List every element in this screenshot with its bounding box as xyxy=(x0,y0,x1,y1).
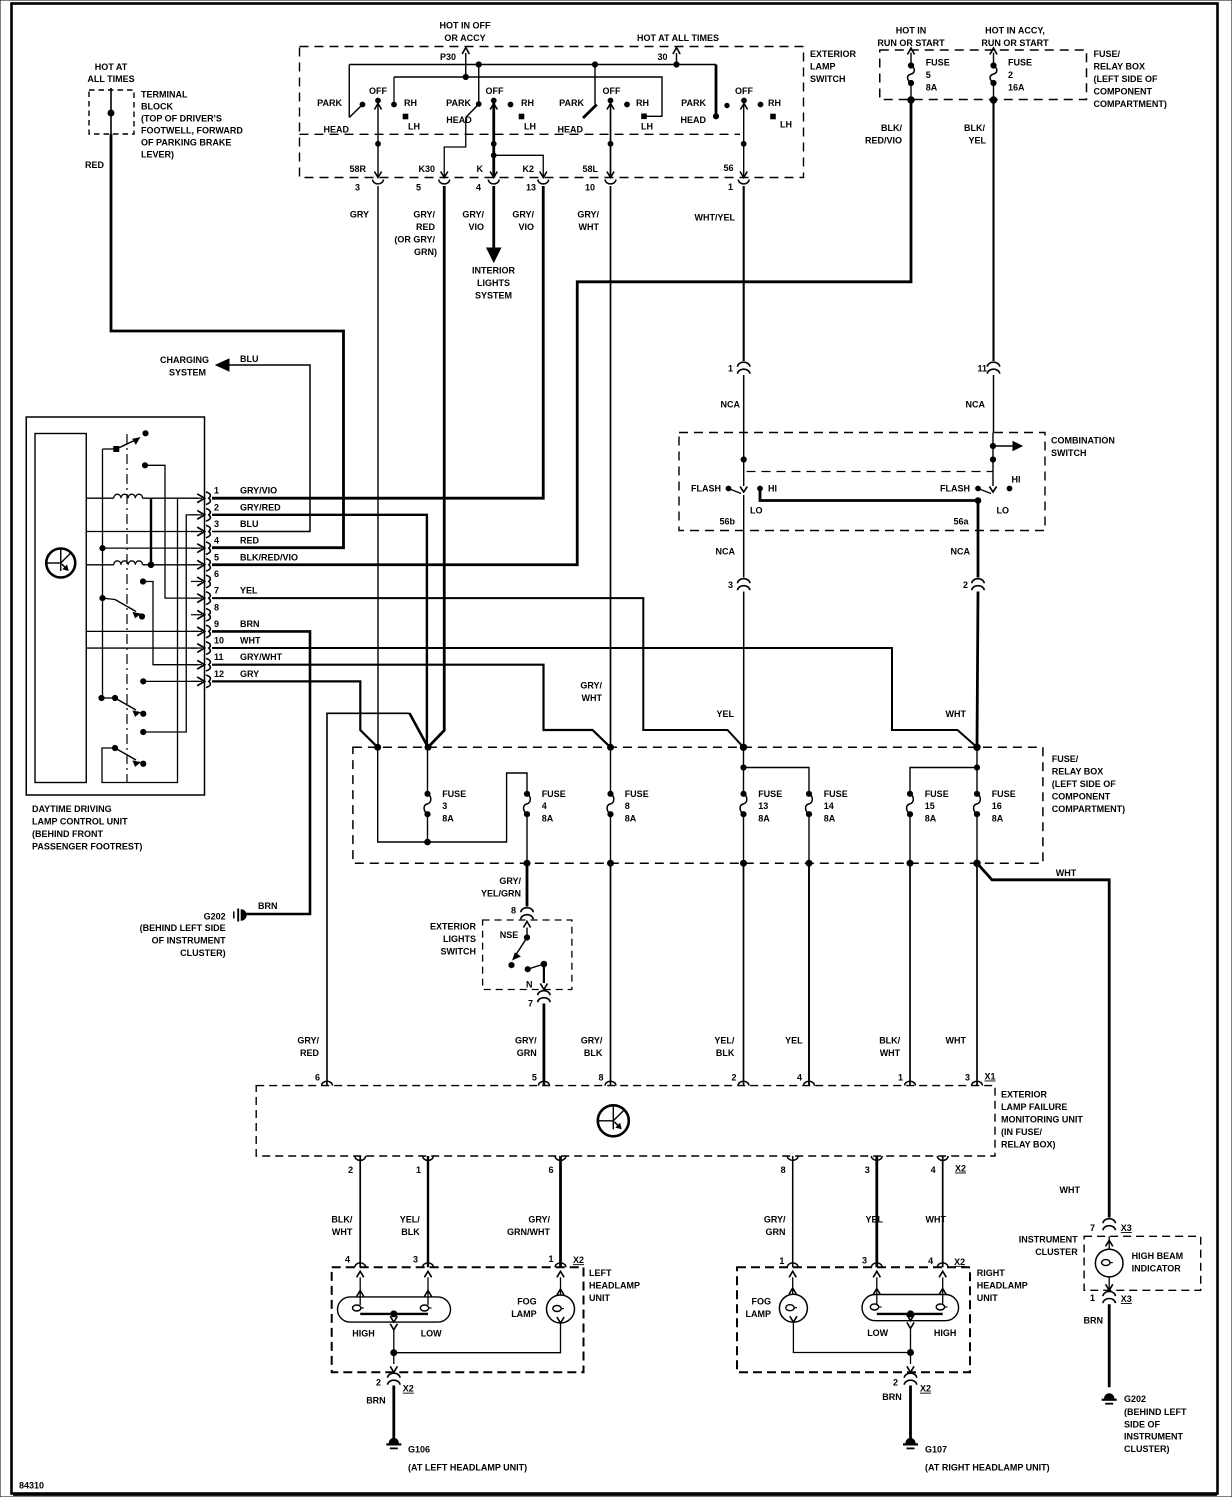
svg-text:FUSE: FUSE xyxy=(1008,58,1032,68)
wire GRY/RED from K30 to fuse box xyxy=(428,186,444,747)
control unit switch4 feed from row1 xyxy=(102,498,178,782)
svg-text:GRY/: GRY/ xyxy=(581,1036,603,1046)
svg-text:X3: X3 xyxy=(1121,1294,1132,1304)
switch section1 arm xyxy=(349,102,365,117)
node GRY into fuse box xyxy=(375,744,381,750)
svg-text:BLK: BLK xyxy=(716,1048,735,1058)
supply bus line B xyxy=(394,77,662,116)
svg-text:BLK/: BLK/ xyxy=(879,1036,900,1046)
svg-text:BRN: BRN xyxy=(1084,1316,1104,1326)
svg-text:P30: P30 xyxy=(440,52,456,62)
wire BRN to G202 xyxy=(1108,1304,1111,1387)
svg-text:OR ACCY: OR ACCY xyxy=(444,33,485,43)
switch section1 PARK/HEAD labels xyxy=(317,98,349,135)
svg-text:NCA: NCA xyxy=(951,547,971,557)
label FUSE 16 8A xyxy=(992,789,1016,824)
svg-text:SYSTEM: SYSTEM xyxy=(475,291,512,301)
svg-text:GRN: GRN xyxy=(517,1048,537,1058)
svg-text:G107: G107 xyxy=(925,1444,947,1454)
svg-text:GRN): GRN) xyxy=(414,247,437,257)
connector 8 xyxy=(511,906,533,920)
switch section2 RH/LH contacts xyxy=(508,98,536,132)
label FUSE 15 8A xyxy=(925,789,949,824)
connector 7 X3 xyxy=(1090,1219,1115,1233)
svg-text:FLASH: FLASH xyxy=(691,484,721,494)
label BRN (pin9) xyxy=(258,901,278,911)
label NCA left xyxy=(721,400,741,410)
combination switch inner dashed line xyxy=(747,471,994,473)
svg-text:BLK/RED/VIO: BLK/RED/VIO xyxy=(240,552,298,562)
svg-text:3: 3 xyxy=(862,1255,867,1265)
fuse F15 xyxy=(907,791,914,866)
label GRY/BLK xyxy=(581,1036,603,1059)
wire into combination switch right xyxy=(993,375,995,433)
svg-text:LAMP: LAMP xyxy=(746,1309,772,1319)
wire WHT to instrument cluster xyxy=(977,863,1109,1217)
label GRY/YEL/GRN xyxy=(481,876,522,899)
svg-text:MONITORING UNIT: MONITORING UNIT xyxy=(1001,1115,1083,1125)
comb switch right arrow out xyxy=(993,442,1022,451)
control unit switch3 xyxy=(99,695,146,716)
svg-text:BLU: BLU xyxy=(240,519,259,529)
left headlamp bottom connector xyxy=(376,1373,400,1387)
svg-text:PARK: PARK xyxy=(681,98,706,108)
left bulb output arrows xyxy=(390,1316,397,1330)
svg-text:TERMINAL: TERMINAL xyxy=(141,90,188,100)
control unit row10 wire xyxy=(86,647,197,649)
left headlamp pin4 arrow xyxy=(357,1271,364,1305)
right headlamp caption xyxy=(977,1268,1028,1303)
svg-text:8: 8 xyxy=(625,801,630,811)
svg-text:RIGHT: RIGHT xyxy=(977,1268,1006,1278)
svg-text:FOG: FOG xyxy=(517,1297,537,1307)
wire YEL to monitor pin 4 xyxy=(808,863,810,1085)
svg-text:GRN: GRN xyxy=(766,1227,786,1237)
branch wire K2 xyxy=(494,155,547,177)
svg-text:SWITCH: SWITCH xyxy=(441,947,477,957)
svg-text:WHT: WHT xyxy=(880,1048,901,1058)
wire NCA 56b xyxy=(716,531,744,578)
label COMBINATION SWITCH xyxy=(1051,436,1115,459)
svg-text:8A: 8A xyxy=(542,813,554,823)
svg-text:8A: 8A xyxy=(625,813,637,823)
svg-text:13: 13 xyxy=(758,801,768,811)
control unit coil2 xyxy=(86,561,197,565)
wire GRY (58R) to fuse box xyxy=(377,186,379,747)
svg-text:LOW: LOW xyxy=(421,1329,442,1339)
svg-text:YEL: YEL xyxy=(785,1036,803,1046)
svg-text:GRY/: GRY/ xyxy=(515,1036,537,1046)
svg-text:WHT: WHT xyxy=(579,222,600,232)
comb switch right HI contact xyxy=(1007,475,1020,491)
label INSTRUMENT CLUSTER xyxy=(1019,1235,1079,1258)
svg-text:CLUSTER): CLUSTER) xyxy=(1124,1444,1170,1454)
connector pin 1 (56) xyxy=(728,180,749,193)
svg-text:RELAY BOX: RELAY BOX xyxy=(1094,62,1146,72)
svg-text:(TOP OF DRIVER'S: (TOP OF DRIVER'S xyxy=(141,114,222,124)
svg-text:YEL: YEL xyxy=(240,586,258,596)
label G106 xyxy=(408,1444,527,1472)
svg-text:16A: 16A xyxy=(1008,83,1025,93)
control unit row9 wire xyxy=(86,630,197,632)
label WHT (monitor) xyxy=(946,1036,967,1046)
svg-text:RELAY BOX): RELAY BOX) xyxy=(1001,1140,1056,1150)
wire 56b to fuse box xyxy=(743,592,745,748)
label FUSE 4 8A xyxy=(542,789,566,824)
comb switch 56b output xyxy=(719,495,743,531)
switch section3 PARK/HEAD labels xyxy=(557,98,584,135)
svg-text:10: 10 xyxy=(214,636,224,646)
left low filament xyxy=(420,1305,431,1311)
connector 3 (56b) xyxy=(728,579,750,591)
supply bus line A xyxy=(349,62,716,67)
switch section3 supply wire xyxy=(594,65,596,105)
svg-text:WHT: WHT xyxy=(946,1036,967,1046)
svg-text:8A: 8A xyxy=(992,813,1004,823)
svg-text:PARK: PARK xyxy=(446,98,471,108)
label X2 (monitor) xyxy=(955,1164,966,1174)
svg-text:14: 14 xyxy=(824,801,834,811)
fuse/relay box (top) xyxy=(880,50,1087,100)
wire NCA 56a xyxy=(951,531,979,578)
label BRN (right) xyxy=(882,1392,902,1402)
control unit caption xyxy=(32,804,142,852)
svg-text:4: 4 xyxy=(214,536,219,546)
svg-text:8: 8 xyxy=(598,1073,603,1083)
label BLK/WHT (left) xyxy=(331,1215,352,1238)
high beam indicator bulb xyxy=(1095,1236,1123,1290)
svg-text:5: 5 xyxy=(532,1073,537,1083)
ground G202 left symbol xyxy=(234,909,246,922)
svg-text:(LEFT SIDE OF: (LEFT SIDE OF xyxy=(1052,779,1117,789)
svg-text:X2: X2 xyxy=(573,1255,584,1265)
svg-text:4: 4 xyxy=(928,1256,933,1266)
svg-text:INDICATOR: INDICATOR xyxy=(1132,1263,1182,1273)
fuse F3 xyxy=(424,747,431,842)
wire GRY/GRN/WHT to left headlamp xyxy=(559,1156,562,1267)
svg-text:RH: RH xyxy=(768,98,781,108)
label X2 (right headlamp bottom) xyxy=(920,1384,931,1394)
svg-text:GRY: GRY xyxy=(240,669,259,679)
svg-text:RED/VIO: RED/VIO xyxy=(865,136,902,146)
wire YEL/BLK to left headlamp xyxy=(427,1156,429,1267)
label 56 xyxy=(723,163,733,173)
label HOT IN ACCY RUN OR START xyxy=(981,26,1049,49)
svg-text:LAMP: LAMP xyxy=(511,1309,537,1319)
svg-text:RED: RED xyxy=(300,1048,320,1058)
wire 56a to fuse box xyxy=(977,592,978,748)
control unit row12 contact xyxy=(141,679,198,684)
label LO right xyxy=(997,506,1010,516)
svg-text:7: 7 xyxy=(1090,1223,1095,1233)
svg-text:(BEHIND FRONT: (BEHIND FRONT xyxy=(32,829,103,839)
svg-text:INSTRUMENT: INSTRUMENT xyxy=(1124,1432,1183,1442)
label WHT (cluster top) xyxy=(1056,868,1077,878)
svg-text:8A: 8A xyxy=(925,813,937,823)
svg-text:HEADLAMP: HEADLAMP xyxy=(589,1281,640,1291)
label LO left xyxy=(750,506,763,516)
fuse 2 arrow xyxy=(990,48,997,66)
right lamp common wire xyxy=(907,1328,914,1372)
label YEL (pin7) xyxy=(716,709,734,719)
svg-text:RED: RED xyxy=(240,536,260,546)
label GRY/GRN xyxy=(515,1036,537,1059)
label YEL (monitor) xyxy=(785,1036,803,1046)
comb switch left FLASH contact xyxy=(691,484,741,494)
label BRN (left) xyxy=(366,1395,386,1405)
control unit coil1 xyxy=(86,494,197,498)
wire GRY/WHT pin11 to fuse box xyxy=(212,665,611,748)
svg-text:6: 6 xyxy=(315,1073,320,1083)
wire BRN to G106 xyxy=(392,1386,395,1442)
connector 11 (BLK/YEL) xyxy=(977,362,999,374)
NSE switch contact xyxy=(500,922,531,941)
svg-text:HEADLAMP: HEADLAMP xyxy=(977,1281,1028,1291)
right headlamp pin4 arrow xyxy=(939,1271,946,1304)
switch section1 output wire 58R xyxy=(374,101,381,178)
fuse/relay box note (top) xyxy=(1094,49,1167,109)
svg-text:WHT/YEL: WHT/YEL xyxy=(695,213,736,223)
left headlamp top pins xyxy=(345,1254,566,1267)
label EXTERIOR LIGHTS SWITCH xyxy=(430,922,477,957)
svg-text:RH: RH xyxy=(636,98,649,108)
switch section3 RH/LH contacts xyxy=(625,98,653,132)
label HOT AT ALL TIMES (terminal block) xyxy=(87,62,134,84)
svg-text:LAMP FAILURE: LAMP FAILURE xyxy=(1001,1102,1067,1112)
svg-text:4: 4 xyxy=(542,801,547,811)
svg-text:YEL/: YEL/ xyxy=(714,1036,735,1046)
svg-text:LH: LH xyxy=(641,122,653,132)
right bulb output arrows xyxy=(907,1315,914,1329)
wire GRY/RED branch to monitor pin 6 xyxy=(327,713,428,1085)
exterior lamp switch inner dashed line xyxy=(300,133,741,135)
svg-text:FOG: FOG xyxy=(752,1297,772,1307)
svg-text:LH: LH xyxy=(524,122,536,132)
svg-text:WHT: WHT xyxy=(926,1215,947,1225)
svg-text:EXTERIOR: EXTERIOR xyxy=(430,922,477,932)
exterior lamp switch box xyxy=(300,47,804,178)
svg-text:(OR GRY/: (OR GRY/ xyxy=(394,235,435,245)
switch section1 RH/LH contacts xyxy=(392,77,420,132)
N contact xyxy=(525,961,547,972)
svg-text:BRN: BRN xyxy=(240,619,260,629)
node GRY/WHT into fuse box xyxy=(608,744,614,750)
label G107 xyxy=(925,1444,1050,1472)
svg-text:(LEFT SIDE OF: (LEFT SIDE OF xyxy=(1094,74,1159,84)
label G202 xyxy=(1124,1394,1187,1454)
control unit switch3 lower contact to row2 xyxy=(141,515,198,735)
svg-text:LOW: LOW xyxy=(867,1328,888,1338)
svg-text:INSTRUMENT: INSTRUMENT xyxy=(1019,1235,1078,1245)
control unit internal bus xyxy=(102,449,104,698)
svg-text:RELAY BOX: RELAY BOX xyxy=(1052,767,1104,777)
svg-text:13: 13 xyxy=(526,183,536,193)
svg-text:YEL/: YEL/ xyxy=(400,1215,421,1225)
switch section4 OFF contact xyxy=(735,86,753,110)
wire GRY/WHT (58L) to fuse box xyxy=(610,186,612,747)
svg-text:COMBINATION: COMBINATION xyxy=(1051,436,1115,446)
comb switch 56a output xyxy=(953,501,978,531)
svg-text:RH: RH xyxy=(404,98,417,108)
svg-text:HEAD: HEAD xyxy=(680,115,706,125)
label WHT (pin10) xyxy=(946,709,967,719)
svg-text:HEAD: HEAD xyxy=(446,115,472,125)
switch section3 output wire 58L xyxy=(607,101,614,178)
control unit box xyxy=(26,417,204,795)
label CHARGING SYSTEM xyxy=(160,355,209,378)
wire GRY/RED pin2 to fuse box xyxy=(212,515,427,747)
wire YEL pin7 to fuse box xyxy=(212,598,744,747)
left high filament xyxy=(353,1305,364,1311)
terminal block internal wire xyxy=(108,88,114,134)
node GRY/RED into fuse box xyxy=(425,744,431,750)
wire into NSE switch xyxy=(526,921,528,922)
left headlamp pin3 arrow xyxy=(424,1271,431,1305)
instrument cluster box xyxy=(1084,1236,1201,1290)
svg-text:OFF: OFF xyxy=(486,86,504,96)
fuse box internal GRY link xyxy=(378,747,527,845)
terminal P30 arrow xyxy=(440,48,469,80)
svg-text:WHT: WHT xyxy=(1056,868,1077,878)
label GRY/WHT (pin11) xyxy=(580,681,602,704)
svg-text:OFF: OFF xyxy=(735,86,753,96)
wire GRY/VIO (K) to interior lights xyxy=(487,186,501,262)
label FUSE 14 8A xyxy=(824,789,848,824)
svg-text:FOOTWELL, FORWARD: FOOTWELL, FORWARD xyxy=(141,126,243,136)
svg-text:(AT LEFT HEADLAMP UNIT): (AT LEFT HEADLAMP UNIT) xyxy=(408,1463,527,1473)
svg-text:GRY/: GRY/ xyxy=(512,210,534,220)
svg-text:WHT: WHT xyxy=(332,1227,353,1237)
svg-text:CHARGING: CHARGING xyxy=(160,355,209,365)
comb switch right FLASH contact xyxy=(940,484,991,494)
svg-text:BLK: BLK xyxy=(584,1048,603,1058)
svg-text:1: 1 xyxy=(728,364,733,374)
label GRY/RED (pin6) xyxy=(297,1036,319,1059)
svg-text:FUSE: FUSE xyxy=(542,789,566,799)
right headlamp box xyxy=(737,1267,970,1372)
control unit switch1 xyxy=(103,431,149,452)
wire WHT to right headlamp xyxy=(942,1156,944,1267)
svg-text:HOT AT: HOT AT xyxy=(95,62,128,72)
svg-text:NCA: NCA xyxy=(716,547,736,557)
label GRY xyxy=(350,210,369,220)
label FUSE 5 8A xyxy=(926,58,950,93)
svg-text:30: 30 xyxy=(657,52,667,62)
right high filament xyxy=(936,1304,947,1310)
wire RED from terminal block to control unit pin 4 xyxy=(111,134,344,548)
wire WHT pin10 to fuse box xyxy=(212,648,977,747)
svg-text:ALL TIMES: ALL TIMES xyxy=(87,74,134,84)
label X2 (left headlamp top) xyxy=(573,1255,584,1265)
lamp failure monitoring unit box xyxy=(256,1086,995,1156)
fuse F13 xyxy=(740,747,747,866)
ground G202 xyxy=(1102,1394,1117,1404)
svg-text:K30: K30 xyxy=(418,164,435,174)
fuse 5 arrow xyxy=(907,48,914,66)
svg-text:GRY/: GRY/ xyxy=(528,1215,550,1225)
svg-text:FUSE: FUSE xyxy=(758,789,782,799)
terminal block note xyxy=(141,90,243,160)
terminal block xyxy=(89,90,134,134)
svg-text:RUN OR START: RUN OR START xyxy=(981,38,1049,48)
svg-text:UNIT: UNIT xyxy=(589,1293,610,1303)
svg-text:4: 4 xyxy=(476,183,481,193)
svg-text:(BEHIND LEFT: (BEHIND LEFT xyxy=(1124,1407,1187,1417)
control unit coil link xyxy=(148,498,154,567)
svg-text:WHT: WHT xyxy=(240,636,261,646)
label FOG LAMP (right) xyxy=(746,1297,772,1320)
svg-text:COMPONENT: COMPONENT xyxy=(1052,792,1111,802)
svg-text:2: 2 xyxy=(214,502,219,512)
svg-text:CLUSTER: CLUSTER xyxy=(1035,1247,1078,1257)
svg-text:6: 6 xyxy=(548,1165,553,1175)
wire GRY pin12 to fuse box xyxy=(212,681,378,747)
svg-text:YEL: YEL xyxy=(968,136,986,146)
fuse/relay box note (main) xyxy=(1052,754,1125,814)
right fog lamp xyxy=(779,1294,807,1322)
label EXTERIOR LAMP SWITCH xyxy=(810,49,857,84)
connector pin 10 (58L) xyxy=(585,180,616,193)
svg-text:X1: X1 xyxy=(985,1072,996,1082)
svg-text:GRY/: GRY/ xyxy=(462,210,484,220)
fuse F2 xyxy=(990,63,997,103)
svg-text:FUSE: FUSE xyxy=(926,58,950,68)
control unit switch2 upper contact xyxy=(140,579,197,665)
fuse 13-14 bridge xyxy=(744,768,810,794)
wire WHT to monitor pin 3 xyxy=(976,863,978,1085)
svg-text:CLUSTER): CLUSTER) xyxy=(180,948,226,958)
svg-text:58R: 58R xyxy=(349,164,366,174)
svg-text:FUSE: FUSE xyxy=(442,789,466,799)
svg-text:LH: LH xyxy=(408,122,420,132)
svg-text:N: N xyxy=(526,980,533,990)
label BLK/YEL xyxy=(964,123,986,146)
svg-text:12: 12 xyxy=(214,669,224,679)
svg-text:HI: HI xyxy=(768,484,777,494)
svg-text:56b: 56b xyxy=(719,517,735,527)
svg-text:HEAD: HEAD xyxy=(323,125,349,135)
comb switch left HI contact xyxy=(758,484,777,494)
label LOW (left) xyxy=(421,1329,442,1339)
svg-text:(AT RIGHT HEADLAMP UNIT): (AT RIGHT HEADLAMP UNIT) xyxy=(925,1463,1050,1473)
N output wire xyxy=(526,964,548,990)
svg-text:58L: 58L xyxy=(582,164,598,174)
svg-text:UNIT: UNIT xyxy=(977,1293,998,1303)
svg-text:PARK: PARK xyxy=(317,98,342,108)
switch section3 arm (closed) xyxy=(583,105,597,119)
fuse F16 xyxy=(974,747,981,866)
label YEL/BLK xyxy=(714,1036,735,1059)
label BRN (cluster) xyxy=(1084,1316,1104,1326)
control unit connector pins 1-12 xyxy=(191,486,298,688)
svg-text:INTERIOR: INTERIOR xyxy=(472,266,516,276)
svg-text:X2: X2 xyxy=(954,1257,965,1267)
svg-text:56a: 56a xyxy=(953,517,969,527)
svg-text:HOT IN: HOT IN xyxy=(896,26,927,36)
svg-text:VIO: VIO xyxy=(468,222,484,232)
label FUSE 8 8A xyxy=(625,789,649,824)
control unit row3 wire xyxy=(86,531,197,533)
svg-text:8A: 8A xyxy=(926,83,938,93)
switch section1 head contact wire xyxy=(348,65,350,118)
wire GRY/GRN to monitor pin 5 xyxy=(543,1004,546,1086)
svg-text:RH: RH xyxy=(521,98,534,108)
wire BRN to G107 xyxy=(909,1386,912,1442)
svg-text:6: 6 xyxy=(214,569,219,579)
svg-text:BRN: BRN xyxy=(882,1392,902,1402)
svg-text:LIGHTS: LIGHTS xyxy=(477,278,510,288)
svg-text:G202: G202 xyxy=(204,912,226,922)
